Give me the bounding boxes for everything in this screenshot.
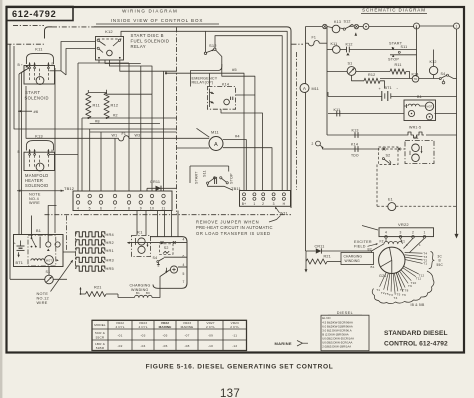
svg-text:55CR: 55CR bbox=[96, 335, 105, 339]
svg-text:-08: -08 bbox=[184, 344, 189, 348]
wire schematic left rail bbox=[305, 27, 307, 252]
wire number #6 arrow bbox=[18, 110, 32, 112]
wire motor row right bbox=[435, 113, 457, 115]
svg-text:T1: T1 bbox=[376, 288, 380, 292]
dash-dot stub to heater feed bbox=[66, 216, 68, 251]
svg-text:DIESEL: DIESEL bbox=[337, 311, 354, 315]
svg-text:4: 4 bbox=[77, 206, 79, 210]
svg-text:HR4: HR4 bbox=[106, 232, 115, 237]
svg-text:1: 1 bbox=[423, 231, 425, 235]
svg-text:R11: R11 bbox=[93, 102, 100, 107]
dash-dot stub upper left bbox=[13, 25, 44, 27]
svg-text:-12: -12 bbox=[232, 344, 237, 348]
control box top dash-dot segment bbox=[52, 26, 94, 28]
svg-text:55C: 55C bbox=[437, 263, 444, 267]
svg-text:WINDING: WINDING bbox=[345, 259, 361, 263]
wire R21 to coil bbox=[106, 293, 118, 295]
svg-text:R11: R11 bbox=[395, 63, 402, 67]
switch S2 dashed box bbox=[160, 244, 174, 255]
node junction bbox=[323, 24, 327, 28]
svg-text:HR3: HR3 bbox=[106, 257, 114, 262]
svg-text:T6: T6 bbox=[402, 293, 406, 297]
motor MOT circle bbox=[45, 256, 54, 265]
wire K1 row with left arrow bbox=[128, 242, 188, 244]
wire VR22 t2 to generator bbox=[404, 238, 414, 248]
svg-text:MOT: MOT bbox=[46, 259, 52, 262]
wire M11 right bbox=[223, 140, 246, 191]
svg-text:-07: -07 bbox=[184, 334, 189, 338]
blob outline around leads bbox=[372, 271, 434, 304]
svg-text:M11: M11 bbox=[211, 130, 219, 135]
voltage regulator VR22 box bbox=[379, 228, 434, 237]
svg-text:T5: T5 bbox=[385, 292, 389, 296]
relay K12 coil circle bbox=[107, 50, 113, 56]
wire bus y129 long bbox=[14, 46, 177, 129]
emergency relay contacts bbox=[209, 89, 211, 108]
svg-text:NOTE: NOTE bbox=[37, 292, 49, 296]
svg-text:B1: B1 bbox=[36, 229, 41, 233]
svg-text:W3: W3 bbox=[135, 134, 141, 138]
wire M11 bottom right bbox=[223, 148, 272, 191]
svg-text:2 CYL: 2 CYL bbox=[206, 325, 215, 329]
relay K12 contacts bbox=[97, 39, 99, 41]
svg-text:NO.12: NO.12 bbox=[37, 297, 49, 301]
wire TB12 feeders bbox=[77, 63, 79, 191]
svg-text:5: 5 bbox=[89, 206, 91, 210]
note leader line bbox=[269, 216, 281, 223]
wire M11 bottom left bbox=[177, 147, 210, 149]
svg-text:EXCITER: EXCITER bbox=[354, 240, 372, 244]
diode CR11 symbol bbox=[147, 187, 177, 189]
svg-text:5: 5 bbox=[182, 272, 184, 276]
wire switch bottom bbox=[208, 184, 218, 186]
svg-text:T11: T11 bbox=[416, 277, 422, 281]
wire #5 run bbox=[166, 73, 244, 190]
svg-text:-11: -11 bbox=[232, 334, 237, 338]
generator leads lower fan bbox=[404, 266, 419, 274]
svg-text:RELAY(OP): RELAY(OP) bbox=[192, 80, 214, 84]
svg-text:#8: #8 bbox=[95, 118, 100, 123]
svg-text:HR1: HR1 bbox=[106, 248, 114, 253]
svg-text:R12: R12 bbox=[111, 102, 119, 107]
wire VR22 t4 to exciter bbox=[385, 238, 387, 241]
svg-text:SCHEMATIC DIAGRAM: SCHEMATIC DIAGRAM bbox=[362, 8, 426, 13]
wire bus motor row bbox=[328, 113, 404, 115]
switch S12 symbol bbox=[204, 52, 206, 54]
svg-text:CHARGING: CHARGING bbox=[344, 255, 363, 259]
svg-text:T9: T9 bbox=[408, 284, 412, 288]
ground small bbox=[166, 268, 168, 272]
svg-text:-: - bbox=[397, 86, 399, 91]
wire heater feed bbox=[63, 251, 76, 253]
svg-text:1: 1 bbox=[419, 243, 421, 247]
heater HR4 bbox=[76, 232, 105, 237]
svg-text:3: 3 bbox=[273, 202, 275, 206]
svg-text:S2: S2 bbox=[386, 153, 391, 157]
relay K1 coils bbox=[138, 238, 145, 245]
svg-text:MARINE: MARINE bbox=[275, 341, 292, 346]
switch S1 circle bbox=[45, 275, 54, 284]
svg-text:T2: T2 bbox=[381, 291, 385, 295]
svg-text:WR1-5: WR1-5 bbox=[409, 126, 421, 130]
svg-text:MOT: MOT bbox=[426, 106, 432, 109]
resistor R11 (wiring) bbox=[86, 93, 91, 118]
svg-text:2: 2 bbox=[262, 202, 264, 206]
wire schematic second rail bbox=[326, 27, 328, 136]
wire inner corner run 1 bbox=[206, 31, 288, 190]
generator internal spokes bbox=[390, 247, 392, 260]
start arrow marker bbox=[355, 33, 358, 36]
solenoid K11 terminal arrows bbox=[29, 62, 31, 67]
svg-text:612-4792: 612-4792 bbox=[12, 9, 56, 19]
svg-text:K12: K12 bbox=[105, 29, 113, 34]
svg-text:CR11: CR11 bbox=[315, 244, 325, 248]
motor contacts bbox=[39, 237, 41, 249]
svg-text:S4: S4 bbox=[153, 256, 158, 260]
wire to B1 left stub bbox=[31, 216, 33, 239]
svg-text:S1: S1 bbox=[348, 61, 353, 65]
svg-text:RELAY: RELAY bbox=[131, 44, 147, 49]
svg-text:S1: S1 bbox=[46, 270, 51, 274]
wire K12 bottom drops bbox=[99, 60, 129, 63]
svg-text:FIGURE 5-16. DIESEL GENERAT: FIGURE 5-16. DIESEL GENERATING SET CONTR… bbox=[146, 363, 334, 370]
wire jumper dashed bbox=[377, 148, 405, 150]
wire bus heater row bbox=[327, 134, 406, 136]
heater HR2 bbox=[76, 240, 105, 245]
relay K12 box bbox=[96, 37, 124, 61]
wire B2 lead bbox=[372, 244, 385, 251]
svg-text:-01: -01 bbox=[117, 334, 122, 338]
wire to K12 left bbox=[61, 42, 96, 71]
wire relay bottom lead bbox=[221, 109, 263, 190]
terminal block TB12 terminals bbox=[76, 194, 79, 197]
svg-text:WIRE: WIRE bbox=[37, 301, 48, 305]
engine junction box outline bbox=[150, 237, 187, 289]
node junction 2 bbox=[354, 24, 358, 28]
svg-text:-03: -03 bbox=[140, 334, 145, 338]
svg-text:+: + bbox=[21, 63, 23, 67]
svg-text:SOLENOID: SOLENOID bbox=[25, 95, 49, 100]
solenoid K13 internal dashed leads bbox=[29, 155, 31, 167]
battery box B1 outline bbox=[14, 235, 64, 267]
dash-dot stub right of box bbox=[292, 43, 304, 45]
svg-text:START: START bbox=[195, 171, 199, 184]
switch S4 contact bbox=[157, 261, 159, 263]
wire bus battery row bbox=[328, 96, 382, 98]
svg-text:B1: B1 bbox=[136, 291, 140, 295]
svg-text:K12: K12 bbox=[430, 60, 437, 64]
svg-text:STOP: STOP bbox=[388, 57, 399, 61]
svg-text:MODEL: MODEL bbox=[94, 323, 106, 327]
svg-text:PRE-HEAT CIRCUIT IN AUTOMAT: PRE-HEAT CIRCUIT IN AUTOMATIC bbox=[196, 225, 273, 230]
svg-text:MARINE: MARINE bbox=[181, 325, 194, 329]
solenoid K11 coil circle bbox=[36, 77, 44, 85]
wire VR22 feed diagonal bbox=[362, 226, 378, 231]
title block 612-4792 bbox=[7, 7, 74, 21]
wire coil to engine box bbox=[152, 270, 170, 298]
motor aux circles B1 bbox=[46, 242, 51, 247]
wire R11 R12 tops bbox=[88, 92, 106, 94]
wire TD row bbox=[380, 78, 412, 80]
note pointer line bbox=[51, 261, 73, 292]
svg-text:2: 2 bbox=[416, 25, 418, 29]
svg-text:10: 10 bbox=[150, 206, 154, 210]
switch S2 contact bbox=[163, 251, 169, 253]
svg-text:STANDARD DIESEL: STANDARD DIESEL bbox=[384, 330, 448, 337]
wire K13 S lead bbox=[50, 154, 79, 156]
brace 3C B 55C bbox=[429, 252, 434, 269]
control box top right solid bbox=[94, 27, 291, 208]
svg-text:B+: B+ bbox=[242, 202, 247, 206]
svg-text:S11: S11 bbox=[203, 170, 207, 177]
svg-text:T3: T3 bbox=[389, 293, 393, 297]
marine brace arrow bbox=[297, 341, 303, 347]
emergency relay K14 box bbox=[207, 87, 235, 110]
wire schematic right rail with node 1 bbox=[454, 23, 460, 29]
inductor charging winding coil bbox=[135, 295, 153, 297]
wire S4 row bbox=[164, 256, 187, 258]
svg-text:TDO: TDO bbox=[351, 154, 359, 158]
resistor R12 (schematic) bbox=[364, 78, 380, 83]
node 2 circle bbox=[414, 23, 420, 29]
svg-text:11: 11 bbox=[162, 206, 166, 210]
node circle 2 lower bbox=[316, 141, 321, 146]
resistor R21 (schematic) bbox=[305, 251, 307, 262]
svg-text:F1: F1 bbox=[312, 36, 317, 40]
control box outline bbox=[45, 27, 53, 39]
svg-text:-10: -10 bbox=[208, 344, 213, 348]
svg-text:OR LOAD TRANSFER IS USED: OR LOAD TRANSFER IS USED bbox=[196, 231, 271, 236]
svg-text:FUEL SOLENOID: FUEL SOLENOID bbox=[131, 39, 170, 44]
svg-text:51BR: 51BR bbox=[96, 346, 105, 350]
svg-text:-05: -05 bbox=[162, 334, 167, 338]
svg-text:2 CYL: 2 CYL bbox=[230, 325, 239, 329]
svg-text:#4: #4 bbox=[235, 134, 240, 139]
svg-text:STOP: STOP bbox=[230, 173, 234, 184]
svg-text:K13: K13 bbox=[334, 20, 341, 24]
wire S12 right lead bbox=[191, 50, 222, 87]
wire dashed horizontal bbox=[377, 205, 388, 207]
ammeter M11 (schematic) bbox=[300, 84, 309, 93]
svg-text:E1: E1 bbox=[388, 198, 393, 202]
wire dashed vertical bbox=[376, 165, 378, 207]
svg-text:1: 1 bbox=[253, 202, 255, 206]
switch S11 start-stop assembly bbox=[190, 165, 229, 167]
heater HR5 bbox=[76, 266, 105, 271]
svg-text:+: + bbox=[379, 87, 382, 91]
svg-text:BT1: BT1 bbox=[16, 261, 24, 265]
switch S4 ground bbox=[157, 263, 159, 265]
svg-text:#2: #2 bbox=[113, 112, 118, 117]
svg-text:T8: T8 bbox=[405, 289, 409, 293]
fuse F1 (wiring) with W1 W3 bbox=[26, 86, 119, 138]
svg-text:-06: -06 bbox=[162, 344, 167, 348]
wire VR22 t1 to generator bbox=[410, 238, 425, 252]
svg-text:K1: K1 bbox=[137, 229, 142, 234]
svg-text:TB12: TB12 bbox=[64, 186, 74, 191]
relay K12 top dashed bbox=[98, 38, 122, 40]
svg-text:W1: W1 bbox=[112, 134, 118, 138]
svg-text:CR11: CR11 bbox=[150, 180, 160, 184]
inner dash-dot box bbox=[28, 235, 56, 266]
svg-text:R12: R12 bbox=[368, 73, 375, 77]
svg-text:S12: S12 bbox=[344, 20, 351, 24]
svg-text:REMOVE JUMPER WHEN: REMOVE JUMPER WHEN bbox=[196, 220, 259, 225]
svg-text:#6: #6 bbox=[34, 109, 39, 114]
terminal block TB12 box bbox=[73, 191, 172, 211]
wire extra feeder bbox=[81, 118, 83, 191]
svg-text:F1: F1 bbox=[122, 132, 127, 136]
generator G21 circle bbox=[379, 247, 405, 273]
svg-text:BT1: BT1 bbox=[385, 86, 392, 90]
ground arrow bbox=[305, 262, 307, 270]
wire CR11 vertical bbox=[146, 188, 148, 191]
charging winding box (schematic) bbox=[341, 253, 374, 265]
svg-text:2: 2 bbox=[412, 231, 414, 235]
ammeter M11 bbox=[209, 137, 223, 151]
svg-text:B1: B1 bbox=[417, 95, 422, 99]
wire relay to TB11 bbox=[236, 94, 255, 96]
relay K1 coils (schematic) bbox=[412, 144, 420, 152]
svg-text:IB & 5IB: IB & 5IB bbox=[410, 303, 425, 307]
svg-text:T4: T4 bbox=[394, 296, 398, 300]
svg-text:FIELD: FIELD bbox=[354, 244, 366, 248]
switch STOP stub bbox=[390, 54, 417, 56]
svg-text:-04: -04 bbox=[140, 344, 145, 348]
svg-text:+: + bbox=[14, 242, 17, 246]
motor aux circles bbox=[408, 110, 414, 116]
diesel table box bbox=[321, 315, 369, 351]
svg-text:R21: R21 bbox=[94, 285, 102, 289]
svg-text:6: 6 bbox=[182, 255, 184, 259]
svg-text:-02: -02 bbox=[117, 344, 122, 348]
resistor R12 (wiring) bbox=[104, 93, 109, 118]
wire B2 to box bbox=[371, 251, 373, 253]
wire schematic start rail bbox=[416, 27, 418, 77]
wire S12 branch to TB11 bbox=[222, 64, 255, 191]
wire aux into B1 bbox=[48, 206, 56, 243]
terminal block TB11 box bbox=[240, 191, 291, 207]
resistor R21 bbox=[86, 291, 107, 296]
wire switch to TB11 bbox=[218, 186, 233, 190]
wire K1 feeders bbox=[136, 211, 138, 236]
svg-text:7: 7 bbox=[182, 280, 184, 284]
wire bus y118 with #2 bbox=[82, 117, 177, 119]
wire R11 to TD row bbox=[406, 72, 410, 79]
battery BT1 cells bbox=[17, 245, 25, 247]
solenoid K13 coil circle bbox=[36, 163, 44, 171]
svg-text:K12: K12 bbox=[346, 42, 353, 46]
svg-text:S4: S4 bbox=[441, 72, 446, 76]
node circle A bbox=[363, 24, 369, 30]
wire K11 aux vertical bbox=[54, 68, 56, 233]
wire K11 S lead bbox=[50, 70, 62, 72]
svg-text:9: 9 bbox=[140, 206, 142, 210]
svg-text:1: 1 bbox=[456, 25, 458, 29]
svg-text:K14: K14 bbox=[351, 142, 358, 146]
dash-dot stub left bbox=[7, 43, 45, 45]
svg-text:3: 3 bbox=[399, 231, 401, 235]
svg-text:8: 8 bbox=[128, 206, 130, 210]
wire top row to node 2 bbox=[369, 26, 414, 28]
svg-text:WIRING DIAGRAM: WIRING DIAGRAM bbox=[122, 8, 178, 13]
wire M11 top diagonal bbox=[197, 128, 210, 137]
solenoid K13 dome bbox=[26, 141, 53, 151]
svg-text:B0: B0 bbox=[146, 291, 150, 295]
wire plus circle row bbox=[178, 266, 187, 268]
svg-text:B1: B1 bbox=[371, 265, 375, 269]
wire top row right bbox=[420, 25, 454, 27]
wire TB12 to engine box drops bbox=[157, 211, 159, 237]
svg-text:S11: S11 bbox=[401, 45, 408, 49]
svg-text:4 CYL: 4 CYL bbox=[138, 325, 147, 329]
battery BT1 down arrow bbox=[18, 252, 20, 255]
heater dash-dot feed bbox=[75, 232, 77, 270]
emergency relay TD circle bbox=[224, 99, 230, 105]
motor box inductor bbox=[404, 105, 407, 107]
wire left vertical pair from K11 B+ bbox=[22, 68, 29, 235]
solenoid K13 body box bbox=[24, 152, 55, 170]
svg-text:S12: S12 bbox=[209, 43, 217, 48]
svg-text:T1: T1 bbox=[423, 262, 427, 266]
svg-text:MARINE: MARINE bbox=[159, 325, 172, 329]
motor coil B1 bbox=[31, 259, 45, 261]
dash-dot door line right bbox=[296, 52, 298, 190]
solenoid K11 body box bbox=[24, 66, 55, 85]
svg-text:4 CYL: 4 CYL bbox=[115, 325, 124, 329]
svg-text:W11: W11 bbox=[280, 212, 288, 216]
svg-text:HR2: HR2 bbox=[106, 240, 114, 245]
svg-text:R21: R21 bbox=[324, 254, 331, 258]
engine box plus circle bbox=[170, 266, 177, 273]
svg-text:4: 4 bbox=[385, 231, 387, 235]
wire S1 bus bbox=[10, 278, 45, 280]
svg-text:TD: TD bbox=[414, 77, 418, 81]
svg-text:K14: K14 bbox=[222, 83, 229, 87]
svg-text:K11: K11 bbox=[35, 47, 43, 52]
wire R12 top run bbox=[107, 90, 152, 94]
wire bus y123.5 with #8 bbox=[90, 123, 160, 125]
svg-text:2: 2 bbox=[312, 142, 314, 146]
svg-text:137: 137 bbox=[220, 388, 240, 398]
control box bottom dash-dot edge bbox=[45, 214, 292, 216]
svg-text:6: 6 bbox=[100, 206, 102, 210]
svg-text:S2: S2 bbox=[164, 246, 169, 250]
svg-text:START DISC B: START DISC B bbox=[131, 33, 164, 38]
wire row A bbox=[349, 49, 416, 51]
svg-text:K13: K13 bbox=[35, 134, 43, 139]
arrow down terminal bbox=[454, 234, 458, 239]
wire schematic top row bbox=[306, 26, 323, 28]
heater HR1 bbox=[76, 248, 105, 253]
wire VR22 t3 to F1 bbox=[401, 238, 402, 241]
svg-text:4: 4 bbox=[182, 238, 184, 242]
svg-text:H: H bbox=[283, 202, 286, 206]
svg-text:F1: F1 bbox=[401, 239, 405, 243]
generator leads T4 T3 T2 T1 bbox=[405, 252, 423, 255]
motor MOT circle (schematic) bbox=[425, 102, 433, 110]
wire S1 row bbox=[327, 71, 347, 73]
heater HR3 bbox=[76, 257, 105, 262]
note no4 wire arrow bbox=[17, 190, 64, 192]
svg-text:HR5: HR5 bbox=[106, 266, 114, 271]
wire S1 feed bbox=[48, 267, 50, 276]
svg-text:#5: #5 bbox=[232, 67, 237, 72]
wire bus K1 row bbox=[320, 145, 377, 149]
svg-text:CONTROL 612-4792: CONTROL 612-4792 bbox=[384, 340, 448, 347]
switch S2 (schematic) dashed box bbox=[379, 147, 399, 165]
svg-text:-09: -09 bbox=[208, 334, 213, 338]
